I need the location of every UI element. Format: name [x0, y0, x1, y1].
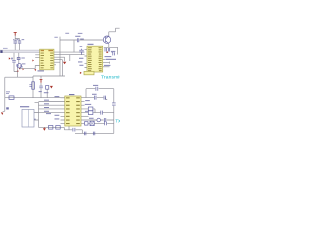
svg-text:Transmit: Transmit — [101, 75, 120, 81]
svg-text:TX: TX — [115, 119, 120, 124]
